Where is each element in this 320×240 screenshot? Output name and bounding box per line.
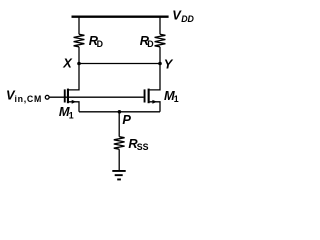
transistor M1 right: source arrow [152,100,157,104]
transistor M1 left: channel bar [67,89,69,104]
gate wire from input to both gates [49,96,143,98]
VDD rail [72,16,169,18]
resistor RD right [155,34,166,47]
wire node P to RSS [118,112,120,137]
wire node X to M1 left drain [69,64,79,90]
wire RSS to ground [118,149,120,170]
wire VDD rail to RD right [159,17,161,35]
svg-text:1: 1 [174,94,179,104]
svg-text:SS: SS [137,142,149,152]
transistor M1 right: channel bar [148,89,150,104]
svg-text:1: 1 [69,110,74,120]
resistor RSS [114,137,125,150]
ground bar 2 [115,174,123,176]
svg-text:D: D [147,39,153,49]
svg-text:D: D [97,39,103,49]
source wire M1 left to bottom rail [69,102,79,112]
ground bar 1 [112,170,125,172]
wire RD right to node Y [159,47,161,64]
svg-text:Y: Y [164,57,174,72]
svg-text:in,CM: in,CM [15,94,43,104]
wire node Y to M1 right drain [150,64,160,90]
resistor RD left [74,34,85,47]
wire RD left to node X [78,47,80,64]
wire VDD rail to RD left [78,17,80,35]
svg-text:P: P [122,112,131,127]
transistor M1 left: source arrow [72,100,77,104]
node Y [158,62,162,66]
bottom rail sources to node P [79,111,160,113]
node X [77,62,81,66]
source wire M1 right to bottom rail [150,102,160,112]
svg-text:DD: DD [181,14,194,24]
input terminal circle [45,95,49,99]
svg-text:X: X [62,56,73,71]
wire node X to node Y [79,63,160,65]
ground bar 3 [117,179,121,181]
transistor M1 left: gate bar [64,89,66,102]
node P [118,110,122,114]
transistor M1 right: gate bar [144,89,146,102]
